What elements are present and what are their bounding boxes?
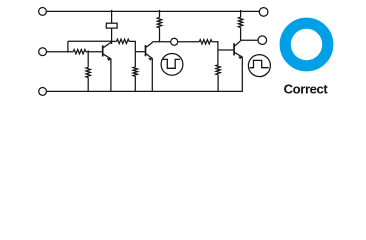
wire box to collector junction (111, 28, 113, 44)
wire collector junction to resistor (112, 40, 117, 42)
pulse symbol (negative pulse) (161, 54, 183, 76)
resistor (Q2 collector load) (157, 18, 161, 28)
wire corner to base Q2 (135, 51, 144, 53)
node feedback tap (67, 41, 69, 52)
resistor (coupling Q1-Q2) (117, 39, 130, 43)
wire coupling resistor 2 to corner (212, 42, 218, 50)
resistor (Q3 collector load) (238, 17, 242, 27)
wire bias resistor 3 to ground rail (217, 75, 219, 92)
wire bias resistor to ground rail (87, 78, 89, 92)
label Correct (284, 81, 329, 96)
resistor (Q1 base bias) (86, 67, 90, 77)
terminal (input top) (39, 7, 47, 15)
box component X1 (106, 23, 117, 28)
wire collector load to junction (159, 28, 161, 42)
wire coupling resistor to corner (129, 41, 135, 51)
transistor Q3 (234, 41, 242, 60)
wire Q2 emitter down (151, 58, 153, 91)
correct mark ring (285, 23, 328, 66)
terminal (input mid) (39, 48, 47, 56)
wire supply to resistor Q3 collector (240, 10, 242, 17)
wire inline terminal to coupling resistor 2 (178, 41, 200, 43)
wire supply to resistor Q2 collector (159, 10, 161, 18)
resistor (Q3 base bias) (216, 65, 220, 75)
terminal (interstage, inline) (171, 38, 178, 45)
node bias tap (87, 51, 89, 68)
transistor Q2 (146, 42, 153, 61)
wire supply to box (111, 10, 113, 23)
wire bias resistor 2 to ground rail (134, 76, 136, 91)
wire top supply rail (47, 10, 260, 12)
resistor (input series) (73, 50, 86, 54)
terminal (top right) (259, 8, 268, 17)
wire Q1 emitter down (110, 58, 112, 91)
terminal (input bottom) (39, 88, 47, 96)
resistor (Q2 base bias) (133, 67, 137, 76)
transistor Q1 (103, 42, 112, 61)
wire junction to output terminal (241, 39, 258, 41)
svg-text:Correct: Correct (284, 81, 329, 96)
wire corner to base Q3 (218, 49, 233, 51)
wire feedback to collector junction (68, 40, 111, 42)
resistor (coupling Q2-Q3) (199, 40, 212, 44)
wire input line (47, 51, 74, 53)
wire node down to bias resistor (134, 52, 136, 67)
wire bottom ground rail (47, 57, 243, 92)
wire node down to bias resistor 3 (217, 50, 219, 65)
wire collector load 2 to junction (240, 27, 242, 40)
terminal (output) (258, 36, 267, 45)
wire Q2 collector junction to inline terminal (152, 41, 170, 43)
pulse symbol (positive pulse) (248, 55, 270, 77)
wire resistor to base Q1 (86, 51, 102, 53)
